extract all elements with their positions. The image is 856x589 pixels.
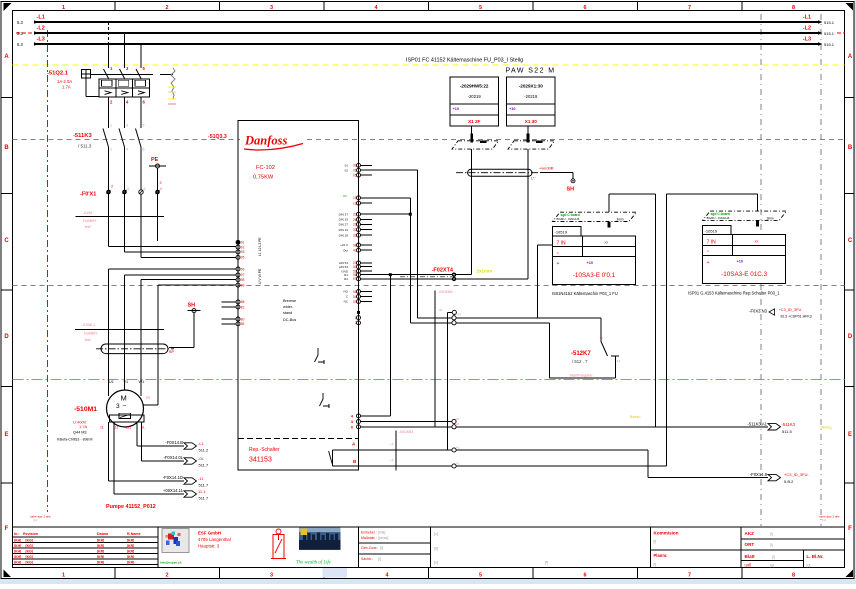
svg-text:-20219: -20219 <box>524 94 538 99</box>
svg-text:hr.:: hr.: <box>14 532 20 536</box>
svg-text:+8: +8 <box>456 422 460 426</box>
svg-text:Datum: Datum <box>97 532 108 536</box>
svg-text:Sachb.:: Sachb.: <box>361 557 373 561</box>
svg-text:14: 14 <box>617 359 621 363</box>
svg-text:-L3: -L3 <box>37 37 45 43</box>
svg-text:32: 32 <box>353 228 357 232</box>
svg-text:C: C <box>848 238 853 244</box>
svg-text:'test': 'test' <box>84 225 91 229</box>
svg-text:/ 511.3: / 511.3 <box>78 144 92 149</box>
svg-text:1: 1 <box>355 316 357 320</box>
svg-text:05: 05 <box>353 290 357 294</box>
svg-text:1: 1 <box>62 573 65 579</box>
svg-text:Maßstab :: Maßstab : <box>361 536 377 540</box>
svg-text:[KG]: [KG] <box>26 549 33 553</box>
svg-text:2x1mm: 2x1mm <box>477 269 493 274</box>
svg-text:-L2: -L2 <box>37 26 45 32</box>
svg-text:BP: BP <box>169 350 175 354</box>
svg-text:[KH]: [KH] <box>14 544 21 548</box>
svg-text:Einheber :: Einheber : <box>361 531 377 535</box>
svg-text:uoll: uoll <box>745 563 752 568</box>
svg-text:BGRU - DAFA-B: BGRU - DAFA-B <box>557 217 580 221</box>
svg-text:515.1: 515.1 <box>824 20 835 25</box>
svg-text:[l]: [l] <box>378 557 381 561</box>
svg-text:B: B <box>848 145 853 151</box>
svg-text:Pumpe 41152_P012: Pumpe 41152_P012 <box>106 504 156 510</box>
svg-text:DIN 18: DIN 18 <box>339 233 349 237</box>
svg-text:-L1: -L1 <box>803 15 811 21</box>
svg-text:2: 2 <box>165 573 168 579</box>
svg-text:[KH]: [KH] <box>14 555 21 559</box>
svg-text:-10519: -10519 <box>705 228 718 233</box>
svg-text:Kommision: Kommision <box>654 531 679 536</box>
svg-text:DIN 27: DIN 27 <box>339 223 349 227</box>
svg-text:DUMMY: DUMMY <box>83 219 97 223</box>
svg-text:515.1: 515.1 <box>824 31 835 36</box>
svg-text:1.7A: 1.7A <box>62 85 71 90</box>
svg-text:+10: +10 <box>509 107 515 111</box>
svg-text:[d]: [d] <box>807 564 811 568</box>
svg-text:3: 3 <box>270 573 273 579</box>
svg-text:-511K3: -511K3 <box>782 422 796 427</box>
svg-text:U1: U1 <box>109 380 114 384</box>
svg-text:FC-102: FC-102 <box>256 165 275 171</box>
svg-text:121: 121 <box>126 426 132 430</box>
svg-text:[e]: [e] <box>434 561 438 565</box>
svg-text:L. Bl.Nr.: L. Bl.Nr. <box>807 554 824 559</box>
svg-text:-10519: -10519 <box>555 229 568 234</box>
svg-text:96: 96 <box>241 267 245 271</box>
svg-text:xx: xx <box>755 240 759 244</box>
svg-text:+: + <box>707 260 710 266</box>
svg-text:[KR]: [KR] <box>127 560 134 564</box>
svg-text:28: 28 <box>353 218 357 222</box>
svg-text:-510M1: -510M1 <box>74 406 97 413</box>
svg-text:1: 1 <box>110 124 112 128</box>
svg-text:7 IN: 7 IN <box>707 240 717 246</box>
svg-text:82: 82 <box>241 305 245 309</box>
svg-text:[m]: [m] <box>33 518 37 522</box>
svg-text:+8: +8 <box>456 417 460 421</box>
svg-text:StartFreigabe: StartFreigabe <box>570 374 593 378</box>
svg-text:7 IN: 7 IN <box>557 241 567 247</box>
svg-text:511.5: 511.5 <box>782 429 792 434</box>
svg-text:[KR]: [KR] <box>97 544 104 548</box>
svg-text:13: 13 <box>600 336 604 340</box>
svg-text:+10: +10 <box>453 107 459 111</box>
svg-text:-F0'X1: -F0'X1 <box>80 192 96 198</box>
svg-text:6: 6 <box>583 573 586 579</box>
svg-text:-F0X14.B: -F0X14.B <box>165 440 183 445</box>
svg-text:3mm: 3mm <box>617 218 624 222</box>
svg-text:33: 33 <box>353 234 357 238</box>
svg-text:-F0X14.0L: -F0X14.0L <box>163 455 183 460</box>
svg-text:01: 01 <box>353 169 357 173</box>
svg-text:42: 42 <box>353 249 357 253</box>
svg-text:R-Name: R-Name <box>127 532 141 536</box>
svg-text:[l]: [l] <box>380 546 383 550</box>
svg-text:R2: R2 <box>344 277 348 281</box>
svg-text:03: 03 <box>353 300 357 304</box>
svg-text:stand: stand <box>283 311 292 315</box>
svg-text:1A-2.0A: 1A-2.0A <box>57 79 72 84</box>
svg-text:08: 08 <box>353 243 357 247</box>
svg-text:5: 5 <box>143 124 145 128</box>
svg-text:[KH]: [KH] <box>14 538 21 542</box>
svg-text:-51Q2.1: -51Q2.1 <box>47 71 69 77</box>
svg-text:02: 02 <box>345 168 349 172</box>
svg-text:[d]: [d] <box>434 547 438 551</box>
svg-text:[KR]: [KR] <box>97 538 104 542</box>
svg-text:-0L: -0L <box>198 456 205 461</box>
svg-text:-10SA3-E 01C.3: -10SA3-E 01C.3 <box>721 271 767 278</box>
svg-text:6: 6 <box>144 187 146 191</box>
svg-text:E: E <box>4 432 8 438</box>
svg-text:5.3: 5.3 <box>17 20 23 25</box>
svg-text:85: 85 <box>241 322 245 326</box>
svg-text:SH: SH <box>567 187 575 193</box>
svg-text:DIN 37: DIN 37 <box>339 212 349 216</box>
svg-text:511.2: 511.2 <box>199 448 209 453</box>
svg-text:91: 91 <box>241 241 245 245</box>
svg-text:ISP01 FC 41152 Kältemaschine F: ISP01 FC 41152 Kältemaschine FU_P03_I St… <box>406 58 523 64</box>
svg-text:[KG]: [KG] <box>26 544 33 548</box>
svg-text:W1: W1 <box>139 380 145 384</box>
svg-text:511.7: 511.7 <box>199 463 209 468</box>
svg-text:D: D <box>4 334 9 340</box>
svg-text:98: 98 <box>241 278 245 282</box>
svg-text:-43: -43 <box>438 308 443 312</box>
svg-text:+24 V: +24 V <box>340 243 348 247</box>
svg-text:Blatt: Blatt <box>745 554 756 559</box>
svg-text:E: E <box>848 432 852 438</box>
svg-text:8: 8 <box>160 187 162 191</box>
svg-text:L*.': L*.' <box>531 177 536 181</box>
svg-text:[KG]: [KG] <box>26 538 33 542</box>
svg-text:M: M <box>121 394 127 403</box>
svg-text:8: 8 <box>792 573 795 579</box>
svg-text:97: 97 <box>353 277 357 281</box>
svg-text:C: C <box>4 238 9 244</box>
svg-text:1.7A: 1.7A <box>79 424 88 429</box>
svg-text:U V W PE: U V W PE <box>258 268 262 284</box>
svg-text:DIN 29: DIN 29 <box>339 218 349 222</box>
svg-text:Ölheizg: Ölheizg <box>820 426 832 430</box>
svg-text:04: 04 <box>353 295 357 299</box>
svg-text:NO: NO <box>344 290 349 294</box>
svg-text:=: = <box>557 250 560 255</box>
svg-text:92: 92 <box>241 245 245 249</box>
svg-text:5.3: 5.3 <box>17 42 23 47</box>
svg-text:+6: +6 <box>456 445 460 449</box>
svg-text:[l]: [l] <box>770 532 773 536</box>
svg-text:3: 3 <box>270 5 273 11</box>
svg-text:Revision: Revision <box>23 532 38 536</box>
svg-text:511.7: 511.7 <box>199 483 209 488</box>
svg-text:02: 02 <box>353 164 357 168</box>
svg-text:80: 80 <box>241 317 245 321</box>
svg-text:6: 6 <box>143 148 145 152</box>
svg-text:Q44 M3: Q44 M3 <box>73 431 87 435</box>
svg-text:05: 05 <box>353 173 357 177</box>
svg-text:5: 5 <box>479 573 482 579</box>
svg-text:11.1: 11.1 <box>198 489 206 494</box>
svg-text:7: 7 <box>688 573 691 579</box>
svg-text:3mm: 3mm <box>767 217 774 221</box>
svg-text:-F0X14.8: -F0X14.8 <box>750 472 768 477</box>
svg-text:+10: +10 <box>587 261 593 265</box>
svg-text:-L1: -L1 <box>198 441 205 446</box>
svg-text:-11: -11 <box>198 476 204 481</box>
svg-text:-2029HW5:22: -2029HW5:22 <box>460 84 489 89</box>
svg-text:95: 95 <box>241 256 245 260</box>
svg-text:PE: PE <box>146 396 151 400</box>
svg-text:F: F <box>5 526 9 532</box>
svg-text:ISP01 G.4153 Kältemaschine Rep: ISP01 G.4153 Kältemaschine Rep.Schalter … <box>688 291 780 296</box>
svg-text:[l]: [l] <box>654 540 657 544</box>
svg-text:6: 6 <box>583 5 586 11</box>
svg-text:[l]: [l] <box>772 555 775 559</box>
svg-text:+5: +5 <box>456 461 460 465</box>
svg-text:[KR]: [KR] <box>127 538 134 542</box>
svg-text:+C3_ID_3FU-: +C3_ID_3FU- <box>784 472 809 477</box>
svg-text:ORT: ORT <box>745 542 755 547</box>
svg-text:-L3: -L3 <box>803 37 811 43</box>
svg-text:[KR]: [KR] <box>127 549 134 553</box>
svg-text:-0010063: -0010063 <box>399 430 413 434</box>
svg-text:wider-: wider- <box>283 305 294 309</box>
svg-text:4: 4 <box>126 148 128 152</box>
svg-text:2: 2 <box>165 5 168 11</box>
svg-text:+: + <box>557 261 560 267</box>
svg-text:Danfoss: Danfoss <box>244 134 288 148</box>
svg-text:43: 43 <box>458 313 462 317</box>
svg-text:DIN 19: DIN 19 <box>339 228 349 232</box>
svg-text:V1: V1 <box>124 380 129 384</box>
svg-text:IS01N4152 Kältemaschin P03_1 F: IS01N4152 Kältemaschin P03_1 FU <box>552 291 618 296</box>
svg-text:X1 2F: X1 2F <box>468 119 480 124</box>
svg-text:99: 99 <box>241 283 245 287</box>
svg-text:Bremse: Bremse <box>283 299 296 303</box>
svg-text:[KR]: [KR] <box>97 560 104 564</box>
svg-text:Rep.-Schalter: Rep.-Schalter <box>249 447 280 453</box>
svg-text:5.B.2: 5.B.2 <box>784 479 794 484</box>
svg-text:F: F <box>848 526 852 532</box>
svg-text:+C3_ID_3FU: +C3_ID_3FU <box>779 307 802 312</box>
svg-text:-F02XT4: -F02XT4 <box>432 268 454 274</box>
svg-text:50: 50 <box>353 265 357 269</box>
svg-text:[KH]: [KH] <box>14 560 21 564</box>
svg-text:A: A <box>4 54 9 60</box>
svg-text:-L2: -L2 <box>803 26 811 32</box>
svg-text:93: 93 <box>241 250 245 254</box>
svg-text:-2029X1:30: -2029X1:30 <box>519 84 543 89</box>
svg-text:A: A <box>848 54 853 60</box>
svg-text:+verdrillt: +verdrillt <box>539 166 554 170</box>
svg-text:-F0X14.1D: -F0X14.1D <box>163 475 183 480</box>
svg-text:+2: +2 <box>390 442 394 446</box>
svg-text:Hauptstr. 3: Hauptstr. 3 <box>198 544 220 549</box>
svg-text:-511K3.A1: -511K3.A1 <box>748 421 768 426</box>
svg-text:[d]: [d] <box>770 564 774 568</box>
svg-text:2: 2 <box>110 148 112 152</box>
svg-text:15: 15 <box>353 196 357 200</box>
svg-text:Geb.Zone:: Geb.Zone: <box>361 546 378 550</box>
svg-text:PAW S22 M: PAW S22 M <box>506 68 556 75</box>
svg-text:DUMMY: DUMMY <box>84 332 98 336</box>
svg-text:xx: xx <box>605 241 609 245</box>
svg-text:[f]: [f] <box>545 561 548 565</box>
svg-text:[c]: [c] <box>434 532 438 536</box>
svg-text:[KG]: [KG] <box>26 560 33 564</box>
svg-text:BGRU - DAFA-B: BGRU - DAFA-B <box>707 216 730 220</box>
svg-text:1: 1 <box>62 5 65 11</box>
svg-text:-511K3: -511K3 <box>73 133 92 139</box>
svg-text:-512K7: -512K7 <box>571 351 591 357</box>
svg-text:[pzrsk]: [pzrsk] <box>378 536 388 540</box>
svg-text:D: D <box>848 334 853 340</box>
svg-text:~: ~ <box>123 403 127 410</box>
svg-text:3: 3 <box>160 181 162 185</box>
svg-text:4705 Langenthal: 4705 Langenthal <box>198 537 231 542</box>
svg-text:+10: +10 <box>737 260 743 264</box>
svg-text:Bulesh: Bulesh <box>630 415 640 419</box>
svg-text:7: 7 <box>688 5 691 11</box>
svg-text:11: 11 <box>100 426 104 430</box>
svg-text:[KH]: [KH] <box>14 549 21 553</box>
svg-text:+2: +2 <box>390 458 394 462</box>
svg-text:+00X14.11: +00X14.11 <box>163 488 184 493</box>
svg-text:-10SA3-E 0'0.1: -10SA3-E 0'0.1 <box>573 272 616 279</box>
svg-text:B: B <box>4 145 9 151</box>
svg-text:ID.3 +CSP01.HFK3: ID.3 +CSP01.HFK3 <box>781 315 812 319</box>
svg-text:AKZ: AKZ <box>745 531 755 536</box>
svg-text:20: 20 <box>353 213 357 217</box>
svg-text:3: 3 <box>126 124 128 128</box>
svg-text:/ 512 . 7: / 512 . 7 <box>572 359 588 364</box>
svg-text:[lmk]: [lmk] <box>378 531 385 535</box>
svg-text:X1 30: X1 30 <box>525 119 537 124</box>
svg-text:01: 01 <box>345 164 349 168</box>
svg-text:511.7: 511.7 <box>199 496 209 501</box>
svg-text:2: 2 <box>111 185 113 189</box>
svg-text:ESF GmbH: ESF GmbH <box>198 531 221 536</box>
svg-text:97: 97 <box>241 273 245 277</box>
svg-text:-0106: -0106 <box>83 211 92 215</box>
svg-text:Plannr.: Plannr. <box>654 553 668 558</box>
svg-text:AIN 53: AIN 53 <box>339 265 349 269</box>
svg-text:515.1: 515.1 <box>824 42 835 47</box>
svg-text:[l]: [l] <box>770 543 773 547</box>
svg-text:[l]: [l] <box>654 563 657 567</box>
svg-text:341153: 341153 <box>249 457 272 464</box>
svg-text:[KR]: [KR] <box>127 555 134 559</box>
svg-text:0,75KW: 0,75KW <box>253 175 274 181</box>
svg-text:-F0X3.N3: -F0X3.N3 <box>749 308 768 313</box>
svg-text:PE: PE <box>151 157 159 163</box>
svg-text:The wealth of Life: The wealth of Life <box>296 561 332 566</box>
svg-text:8: 8 <box>792 5 795 11</box>
svg-text:[KR]: [KR] <box>97 555 104 559</box>
svg-text:[KR]: [KR] <box>97 549 104 553</box>
svg-text:[KR]: [KR] <box>127 544 134 548</box>
svg-text:2: 2 <box>355 321 357 325</box>
svg-text:=: = <box>707 249 710 254</box>
svg-text:[KG]: [KG] <box>26 555 33 559</box>
svg-text:3: 3 <box>116 403 120 410</box>
svg-text:4: 4 <box>127 187 129 191</box>
svg-text:Out: Out <box>343 248 348 252</box>
svg-text:5: 5 <box>479 5 482 11</box>
svg-text:Info@espen.ch: Info@espen.ch <box>160 561 182 565</box>
svg-text:-L1: -L1 <box>37 15 45 21</box>
svg-text:SH: SH <box>188 303 196 309</box>
svg-text:-0106L1: -0106L1 <box>82 323 95 327</box>
svg-text:[m]: [m] <box>822 518 826 522</box>
svg-text:'test': 'test' <box>84 338 91 342</box>
svg-text:L1 L2 L3 PE: L1 L2 L3 PE <box>258 237 262 256</box>
svg-text:12: 12 <box>353 201 357 205</box>
svg-text:-51Q3.3: -51Q3.3 <box>208 134 227 140</box>
svg-text:on: on <box>343 194 347 198</box>
svg-text:29: 29 <box>353 223 357 227</box>
svg-text:Kälefa-Chill33 - 898 M: Kälefa-Chill33 - 898 M <box>57 438 93 442</box>
svg-text:-20219: -20219 <box>468 94 482 99</box>
svg-text:88: 88 <box>241 300 245 304</box>
svg-text:DC-Bus: DC-Bus <box>283 318 296 322</box>
svg-text:-0010068: -0010068 <box>438 290 452 294</box>
